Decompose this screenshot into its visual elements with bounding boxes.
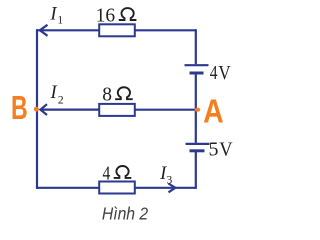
svg-text:8: 8: [102, 85, 112, 106]
svg-text:1: 1: [57, 15, 63, 27]
svg-text:A: A: [203, 92, 224, 130]
svg-text:Hình 2: Hình 2: [102, 204, 148, 223]
svg-text:V: V: [219, 139, 232, 161]
svg-text:V: V: [218, 62, 231, 85]
svg-text:I: I: [49, 4, 57, 24]
svg-text:I: I: [50, 83, 58, 103]
svg-text:B: B: [11, 90, 28, 127]
svg-text:16: 16: [96, 5, 116, 26]
svg-text:2: 2: [58, 94, 64, 106]
svg-text:3: 3: [167, 175, 173, 187]
svg-text:5: 5: [209, 139, 219, 161]
svg-text:4: 4: [210, 61, 218, 83]
svg-text:4: 4: [103, 162, 111, 184]
